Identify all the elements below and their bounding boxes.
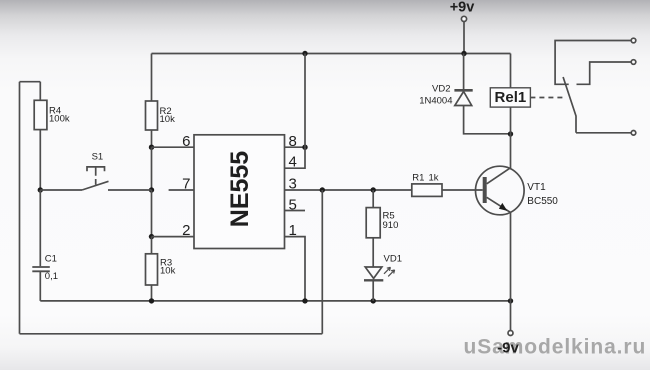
wire -9v lead	[510, 301, 512, 331]
terminal contact NC	[631, 38, 636, 43]
wire R5 top lead	[372, 190, 374, 208]
wire ground rail	[40, 300, 510, 302]
node top-rail branch	[302, 51, 307, 56]
LED VD1 triangle	[365, 267, 382, 278]
relay Rel1 coil box	[490, 88, 530, 107]
resistor R5	[366, 208, 380, 238]
node pin8 junction	[302, 145, 307, 150]
wire R5 bottom lead	[372, 238, 374, 267]
svg-text:5: 5	[289, 196, 297, 213]
svg-text:1k: 1k	[429, 173, 439, 184]
LED VD1 emission arrows	[384, 267, 395, 276]
wire pin4 connection	[285, 147, 305, 168]
wire Rel1 top	[510, 54, 512, 88]
svg-text:3: 3	[289, 176, 297, 193]
relay contact NC wire	[555, 41, 631, 85]
node pin3 feedback junction	[320, 187, 325, 192]
transistor Q1 emitter arrowhead	[499, 203, 507, 211]
svg-text:R1: R1	[412, 173, 424, 184]
wire R3 top	[151, 237, 153, 254]
relay common wire	[576, 132, 631, 134]
node R4/C1 junction	[38, 187, 43, 192]
wire pin1 connection	[285, 237, 305, 301]
svg-text:1N4004: 1N4004	[419, 95, 452, 106]
svg-text:8: 8	[289, 133, 297, 150]
transistor Q1 collector stroke	[487, 168, 511, 184]
diode VD2 cathode bar	[454, 89, 472, 92]
wire pin3 output	[285, 189, 412, 191]
node LED ground junction	[371, 298, 376, 303]
svg-text:VT1: VT1	[527, 182, 546, 193]
switch S1 right wire	[108, 189, 152, 191]
terminal contact NO	[631, 60, 636, 65]
svg-text:10k: 10k	[160, 265, 176, 276]
svg-text:-9v: -9v	[497, 340, 519, 357]
wire top rail	[152, 53, 511, 55]
resistor R4	[34, 100, 47, 129]
wire left column mid	[151, 147, 153, 190]
node emitter ground junction	[508, 298, 513, 303]
svg-text:2: 2	[182, 222, 190, 239]
node collector junction	[508, 131, 513, 136]
node R3 bottom junction	[149, 298, 154, 303]
relay contact NO wire	[577, 62, 632, 84]
node +9v junction	[461, 51, 466, 56]
LED VD1 cathode bar	[364, 279, 383, 281]
wire VD1 bottom lead	[372, 280, 374, 301]
op-amp U1: IC NE555 body	[194, 135, 285, 249]
wire vcc branch x305	[304, 54, 306, 148]
node pin6 junction	[149, 145, 154, 150]
wire R4 bottom	[39, 130, 41, 190]
svg-text:100k: 100k	[49, 113, 70, 124]
svg-text:uSamodelkina.ru: uSamodelkina.ru	[464, 336, 647, 359]
svg-text:C1: C1	[45, 254, 57, 265]
wire R2 bottom	[151, 130, 153, 147]
wire left column lower	[151, 190, 153, 237]
wire R4 top	[39, 82, 41, 101]
svg-text:BC550: BC550	[527, 196, 558, 207]
terminal +9v	[461, 16, 466, 21]
svg-text:0,1: 0,1	[45, 271, 58, 282]
wire base	[442, 189, 483, 191]
svg-text:7: 7	[182, 176, 190, 193]
switch S1 left wire	[40, 189, 82, 191]
transistor Q1 emitter stroke	[487, 197, 511, 212]
node R5 top junction	[371, 187, 376, 192]
wire Rel1 bottom	[510, 107, 512, 134]
node pin1 ground junction	[302, 298, 307, 303]
wire outer loop bottom	[20, 333, 323, 335]
relay mechanical link dashed	[530, 97, 566, 99]
wire pin5 stub	[285, 210, 305, 212]
switch S1 actuator	[87, 167, 105, 185]
wire pin8 stub	[285, 146, 305, 148]
diode VD2 bottom lead	[464, 106, 511, 134]
svg-text:Rel1: Rel1	[495, 89, 527, 106]
svg-text:S1: S1	[92, 152, 104, 163]
svg-text:VD2: VD2	[432, 83, 450, 94]
svg-text:+9v: +9v	[450, 0, 475, 16]
wire outer loop left	[19, 82, 21, 334]
resistor R2	[146, 101, 158, 130]
wire C1 bottom lead	[39, 271, 41, 301]
wire feedback vertical	[321, 190, 323, 334]
capacitor C1	[32, 267, 50, 271]
resistor R1	[412, 184, 442, 197]
diode VD2 triangle	[455, 92, 472, 106]
wire +9v lead	[463, 22, 465, 54]
transistor Q1 body circle	[476, 166, 525, 215]
svg-text:1: 1	[289, 222, 297, 239]
diode VD2 top lead	[463, 54, 465, 90]
wire collector vertical	[510, 134, 512, 169]
terminal -9v	[508, 331, 513, 336]
switch S1 contact blade	[82, 181, 109, 190]
svg-text:NE555: NE555	[226, 151, 254, 228]
wire outer loop top	[20, 81, 41, 83]
transistor Q1 base bar	[483, 177, 487, 203]
wire pin7 stub	[169, 189, 194, 191]
svg-text:10k: 10k	[160, 114, 176, 125]
terminal contact common	[631, 131, 636, 136]
svg-text:910: 910	[383, 220, 399, 231]
svg-text:4: 4	[289, 153, 297, 170]
wire pin2	[152, 236, 195, 238]
wire C1 top lead	[39, 190, 41, 266]
wire pin6	[152, 146, 195, 148]
relay armature	[563, 77, 576, 133]
wire R2 top	[151, 54, 153, 102]
svg-text:6: 6	[182, 133, 190, 150]
node pin2 junction	[149, 234, 154, 239]
svg-text:VD1: VD1	[384, 254, 402, 265]
resistor R3	[146, 254, 158, 285]
node S1 junction	[149, 187, 154, 192]
wire R3 bottom	[151, 285, 153, 301]
wire emitter vertical	[510, 212, 512, 301]
